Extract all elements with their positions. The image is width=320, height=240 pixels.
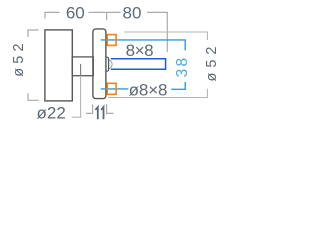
spindle bar (blue rectangle, open left end) — [111, 59, 166, 69]
svg-text:60: 60 — [66, 3, 85, 22]
bottom spindle centre line (blue) — [101, 88, 129, 90]
svg-text:38: 38 — [174, 56, 191, 78]
bottom spindle square 8x8 (orange) — [107, 83, 116, 94]
dimension 11 text (two narrow 1 digits) — [95, 107, 97, 119]
svg-text:ø52: ø52 — [11, 39, 27, 77]
svg-text:ø22: ø22 — [37, 104, 66, 123]
Ø22 leader line — [72, 76, 81, 118]
dimension Ø52 right leaders — [108, 32, 207, 98]
dimension 11 brackets — [86, 104, 114, 113]
dimension Ø52 left brackets — [28, 30, 39, 100]
top spindle centre line (blue) — [101, 40, 185, 51]
rosette plate (side view) — [93, 29, 106, 99]
dimension 60 line — [45, 12, 167, 52]
svg-text:8×8: 8×8 — [126, 41, 154, 60]
neck axis tick — [80, 64, 82, 76]
spindle hub tab — [106, 57, 109, 71]
spindle hub arc — [108, 60, 113, 69]
knob neck rectangle — [72, 57, 93, 76]
top spindle square 8x8 (orange) — [107, 35, 116, 46]
svg-text:ø8×8: ø8×8 — [129, 81, 168, 100]
svg-text:80: 80 — [123, 3, 142, 22]
svg-text:ø52: ø52 — [204, 42, 220, 82]
knob body rectangle — [45, 30, 72, 101]
Ø8x8 to 38 bracket (blue) — [171, 82, 185, 89]
